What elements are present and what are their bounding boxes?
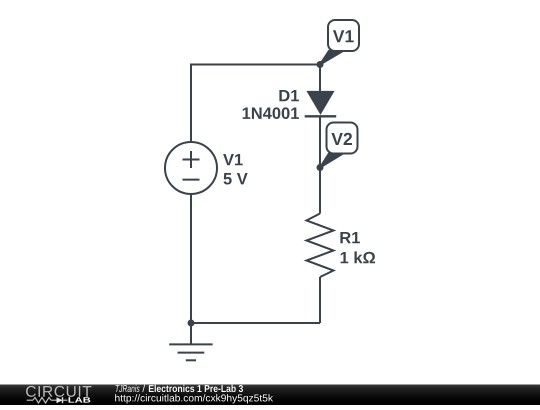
diode D1 cathode bar xyxy=(305,115,337,117)
ground stub wire xyxy=(190,323,192,344)
ground symbol bar 1 xyxy=(169,343,212,345)
label D1 xyxy=(279,90,299,101)
logo schematic squiggle: lead-in wire xyxy=(27,399,33,401)
node dot: ground junction xyxy=(188,320,195,327)
logo schematic squiggle: diode bar xyxy=(62,397,64,403)
logo schematic squiggle: resistor zigzag xyxy=(33,397,51,403)
logo LAB text xyxy=(69,397,91,402)
wire: left vertical from top net to source V1 xyxy=(190,64,192,143)
label 1 kOhm xyxy=(341,251,375,263)
ground symbol bar 3 xyxy=(186,359,196,361)
wire: source bottom to ground node xyxy=(190,194,192,323)
footer line 1: schematic title xyxy=(149,385,243,392)
footer bar xyxy=(0,385,540,406)
wire: top horizontal net V1 xyxy=(191,64,320,66)
label 5 V (source value) xyxy=(224,173,248,185)
node label callout V1: text xyxy=(333,30,354,42)
wire: top node into diode anode xyxy=(319,65,321,92)
logo schematic squiggle: mid wire xyxy=(51,399,57,401)
node label callout V2: text xyxy=(331,133,352,145)
wire: resistor bottom to bottom rail xyxy=(319,277,321,323)
label R1 xyxy=(340,232,360,243)
node label callout V1: pointer xyxy=(320,51,343,65)
logo schematic squiggle: diode triangle xyxy=(57,397,63,403)
label 1N4001 xyxy=(243,107,299,119)
node label callout V2: box xyxy=(327,123,358,154)
voltage source V1 minus sign xyxy=(183,179,200,181)
diode D1 triangle xyxy=(306,91,334,115)
voltage source V1 plus sign xyxy=(183,151,200,168)
footer line 1: slash xyxy=(142,385,145,392)
ground symbol bar 2 xyxy=(178,352,205,354)
node dot: V2 between diode and resistor xyxy=(317,164,324,171)
node label callout V1: box xyxy=(328,20,359,51)
footer line 1: author name xyxy=(116,385,140,392)
wire: node V2 down to resistor top xyxy=(319,168,321,214)
logo CIRCUIT text xyxy=(26,386,91,397)
node dot: top net at diode anode xyxy=(317,61,324,68)
logo schematic squiggle: out wire xyxy=(63,399,68,401)
footer line 2: url xyxy=(115,394,273,403)
voltage source V1 circle xyxy=(165,142,217,194)
wire: diode cathode to node V2 xyxy=(319,117,321,168)
resistor R1 zigzag xyxy=(307,214,334,278)
wire: bottom horizontal rail to ground node xyxy=(191,322,320,324)
node label callout V2: pointer xyxy=(320,154,343,168)
label V1 (source name) xyxy=(223,154,243,165)
